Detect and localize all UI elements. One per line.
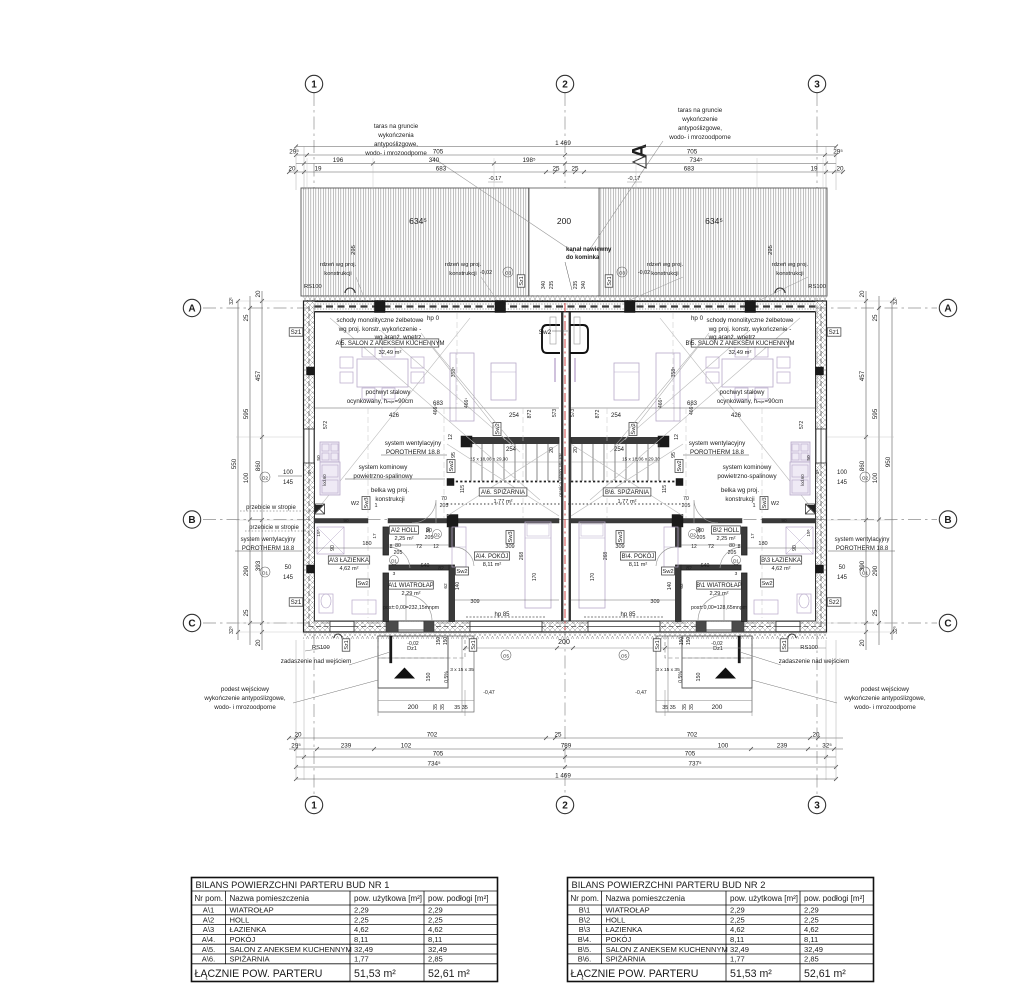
svg-text:2,29: 2,29 [354, 906, 369, 915]
svg-text:wg proj. konstr. wykończenie -: wg proj. konstr. wykończenie - [708, 326, 792, 333]
svg-text:Nazwa pomieszczenia: Nazwa pomieszczenia [230, 894, 310, 903]
axis marker 1 [305, 796, 322, 813]
svg-text:przebicie w stropie: przebicie w stropie [246, 505, 296, 511]
svg-text:268: 268 [519, 552, 525, 561]
svg-text:35: 35 [689, 704, 695, 710]
O1 window label right [860, 567, 870, 577]
axis marker A [183, 299, 200, 316]
svg-text:B\3: B\3 [579, 925, 590, 934]
svg-text:29⁵: 29⁵ [289, 148, 299, 155]
leader lines schody to stairs left [428, 341, 516, 447]
svg-text:235: 235 [549, 281, 555, 290]
svg-text:115: 115 [460, 485, 466, 493]
svg-text:100: 100 [837, 470, 848, 476]
svg-text:C: C [944, 619, 951, 630]
svg-text:1,77 m²: 1,77 m² [494, 499, 513, 505]
svg-text:860: 860 [859, 460, 866, 471]
svg-text:3: 3 [735, 571, 738, 577]
kitchen counter left [320, 442, 339, 462]
svg-text:B\4.: B\4. [578, 935, 592, 944]
svg-text:20: 20 [836, 165, 844, 172]
svg-text:SALON Z ANEKSEM KUCHENNYM: SALON Z ANEKSEM KUCHENNYM [230, 945, 352, 954]
svg-text:196: 196 [333, 157, 344, 164]
svg-text:0,5%: 0,5% [678, 671, 684, 683]
svg-text:20: 20 [255, 290, 262, 298]
svg-text:20: 20 [549, 447, 555, 453]
entrance porch right [682, 636, 752, 688]
svg-text:32⁵: 32⁵ [229, 626, 235, 634]
svg-text:A\6. SPIŻARNIA: A\6. SPIŻARNIA [481, 489, 525, 496]
svg-text:-0,02: -0,02 [711, 641, 723, 647]
svg-text:62: 62 [443, 583, 449, 589]
svg-text:SALON Z ANEKSEM KUCHENNYM: SALON Z ANEKSEM KUCHENNYM [606, 945, 728, 954]
svg-text:schody monolityczne żelbetowe: schody monolityczne żelbetowe [706, 317, 794, 324]
svg-text:295: 295 [768, 245, 774, 255]
entrance porch left [378, 636, 448, 688]
svg-text:SPIŻARNIA: SPIŻARNIA [606, 955, 647, 964]
svg-text:90: 90 [343, 518, 349, 524]
entrance arrow right [715, 668, 736, 679]
svg-text:150: 150 [696, 673, 702, 682]
room label A5 salon [335, 339, 444, 347]
svg-text:702: 702 [687, 731, 698, 738]
room label A1 wiatrolap [388, 581, 434, 589]
svg-text:A\1: A\1 [203, 906, 214, 915]
spizarnia dashed wall right [571, 481, 683, 483]
svg-text:8,11: 8,11 [730, 935, 744, 944]
side wall piers [307, 367, 315, 375]
svg-text:O3: O3 [505, 271, 512, 276]
svg-text:19: 19 [314, 165, 322, 172]
axis marker C [939, 614, 956, 631]
svg-text:2,25 m²: 2,25 m² [717, 536, 736, 542]
svg-text:pow. podłogi [m²]: pow. podłogi [m²] [428, 894, 488, 903]
svg-text:35: 35 [682, 704, 688, 710]
svg-text:hp 0: hp 0 [691, 315, 704, 322]
svg-text:1: 1 [311, 80, 317, 91]
svg-text:466¹: 466¹ [433, 405, 439, 415]
room label A3 lazienka [328, 556, 369, 564]
O2 window label left [260, 472, 270, 482]
svg-text:antypoślizgowe,: antypoślizgowe, [678, 125, 722, 132]
svg-text:290: 290 [872, 565, 879, 576]
svg-text:150: 150 [679, 637, 685, 646]
svg-text:254: 254 [509, 413, 520, 419]
svg-text:29⁵: 29⁵ [833, 148, 843, 155]
axis marker C [183, 614, 200, 631]
room label B2 holl [712, 526, 741, 534]
svg-text:8,11 m²: 8,11 m² [483, 562, 502, 568]
svg-text:do kominka: do kominka [566, 255, 600, 261]
svg-text:80: 80 [395, 543, 401, 549]
svg-text:340: 340 [581, 281, 587, 290]
outer wall outline [304, 301, 827, 632]
svg-text:390: 390 [859, 560, 866, 571]
dining table right unit [722, 359, 773, 387]
svg-text:Sz2: Sz2 [829, 599, 840, 606]
svg-text:457: 457 [255, 370, 262, 381]
svg-text:239: 239 [777, 742, 788, 749]
svg-text:B\2 HOLL: B\2 HOLL [713, 528, 740, 534]
svg-text:system wentylacyjny: system wentylacyjny [689, 440, 746, 447]
svg-text:52,61 m²: 52,61 m² [804, 968, 846, 980]
svg-text:1 469: 1 469 [555, 140, 571, 147]
svg-text:32⁵: 32⁵ [822, 742, 832, 749]
svg-text:50: 50 [316, 455, 322, 461]
svg-text:457: 457 [859, 370, 866, 381]
chimney bracket right [570, 325, 588, 353]
leader lines schody to stairs right [614, 341, 702, 447]
svg-text:19: 19 [810, 165, 818, 172]
svg-text:ocynkowany, hₘᵢₙ=90cm: ocynkowany, hₘᵢₙ=90cm [717, 398, 784, 405]
svg-text:3 x 15 x 35: 3 x 15 x 35 [656, 667, 680, 673]
svg-text:-0,47: -0,47 [635, 690, 647, 696]
svg-text:340: 340 [429, 157, 440, 164]
Sz1 boxed right top [827, 328, 841, 336]
insulation zigzag top [303, 295, 827, 301]
svg-text:309: 309 [615, 544, 624, 550]
svg-text:1 469: 1 469 [555, 772, 571, 779]
svg-text:wg proj. konstr. wykończenie -: wg proj. konstr. wykończenie - [338, 326, 422, 333]
svg-text:32,49 m²: 32,49 m² [729, 350, 752, 356]
svg-text:4,62 m²: 4,62 m² [772, 566, 791, 572]
svg-text:A\2 HOLL: A\2 HOLL [391, 528, 418, 534]
svg-text:antypoślizgowe,: antypoślizgowe, [374, 141, 418, 148]
svg-text:1⁵: 1⁵ [307, 470, 313, 475]
svg-text:640: 640 [421, 563, 430, 569]
svg-text:50: 50 [285, 565, 292, 571]
svg-text:4,62: 4,62 [354, 925, 369, 934]
svg-text:rdzeń wg proj.: rdzeń wg proj. [772, 262, 809, 268]
svg-text:A\4.: A\4. [202, 935, 216, 944]
svg-text:A: A [188, 304, 195, 315]
structural column mirrored [625, 301, 636, 313]
svg-text:170: 170 [532, 573, 538, 582]
svg-text:20: 20 [294, 731, 302, 738]
porch dims right [751, 690, 753, 716]
svg-text:3: 3 [393, 571, 396, 577]
svg-text:0,5%: 0,5% [444, 671, 450, 683]
svg-text:50: 50 [839, 565, 846, 571]
svg-text:705: 705 [687, 148, 698, 155]
svg-text:2,25: 2,25 [354, 915, 369, 924]
svg-text:B\1 WIATROŁAP: B\1 WIATROŁAP [696, 583, 742, 589]
svg-text:62: 62 [679, 583, 685, 589]
svg-text:WIATROŁAP: WIATROŁAP [230, 906, 274, 915]
svg-text:702: 702 [427, 731, 438, 738]
axis marker 2 [556, 796, 573, 813]
svg-text:35 35: 35 35 [662, 705, 676, 711]
svg-text:przebicie w stropie: przebicie w stropie [249, 525, 299, 531]
bottom outer wall hatched [304, 621, 827, 632]
svg-text:393: 393 [255, 560, 262, 571]
svg-text:25: 25 [872, 314, 879, 322]
svg-text:170: 170 [590, 573, 596, 582]
svg-text:Sz1: Sz1 [829, 329, 840, 336]
svg-text:4,62: 4,62 [428, 925, 443, 934]
svg-text:Sw2: Sw2 [662, 569, 673, 575]
svg-text:1: 1 [311, 801, 317, 812]
sofa left unit [450, 353, 474, 421]
Sz1 boxed left top [289, 328, 303, 336]
side window opening [304, 429, 315, 463]
dimension chain y=155 [289, 148, 843, 157]
svg-text:Sz1: Sz1 [291, 329, 302, 336]
svg-text:572: 572 [323, 421, 329, 430]
svg-text:205: 205 [728, 550, 737, 556]
svg-text:51,53 m²: 51,53 m² [354, 968, 396, 980]
svg-text:wg aranż. wnętrz: wg aranż. wnętrz [374, 334, 422, 341]
svg-text:A: A [629, 144, 651, 158]
svg-text:705: 705 [433, 148, 444, 155]
svg-text:90: 90 [781, 518, 787, 524]
svg-text:O1: O1 [262, 571, 269, 576]
svg-text:145: 145 [837, 480, 848, 486]
svg-text:2,29: 2,29 [804, 906, 819, 915]
svg-text:2: 2 [562, 801, 568, 812]
svg-text:-0,47: -0,47 [483, 690, 495, 696]
dashed sill lines pokoj windows [466, 616, 546, 618]
axis marker A [939, 299, 956, 316]
svg-text:737⁵: 737⁵ [688, 760, 702, 767]
wall on axis B [315, 519, 369, 524]
svg-text:Sw2: Sw2 [761, 581, 772, 587]
svg-text:2,85: 2,85 [428, 955, 443, 964]
svg-text:426: 426 [389, 413, 400, 419]
svg-text:254: 254 [614, 447, 625, 453]
svg-text:HOLL: HOLL [606, 915, 626, 924]
svg-text:zadaszenie nad wejściem: zadaszenie nad wejściem [281, 658, 352, 665]
svg-text:32,49: 32,49 [730, 945, 749, 954]
svg-text:Sz1: Sz1 [782, 640, 788, 649]
vertical extension lines inside plan [367, 408, 369, 518]
door swing arcs right unit [694, 500, 718, 523]
svg-text:wodo- i mrozoodporne: wodo- i mrozoodporne [853, 704, 916, 711]
svg-text:3: 3 [814, 80, 820, 91]
svg-text:705: 705 [685, 750, 696, 757]
svg-text:2,29 m²: 2,29 m² [402, 591, 421, 597]
chimney corner blocks at B wall [315, 504, 325, 514]
vertical dimension chain x=866 [859, 290, 868, 650]
svg-text:POKÓJ: POKÓJ [230, 935, 256, 944]
bathroom fixtures right [786, 527, 813, 554]
svg-text:B: B [188, 515, 195, 526]
svg-text:C: C [188, 619, 195, 630]
svg-text:system wentylacyjny: system wentylacyjny [385, 440, 442, 447]
svg-text:2,25: 2,25 [804, 915, 819, 924]
vertical dimension chain x=262 [255, 290, 264, 650]
svg-text:Sw2: Sw2 [539, 329, 552, 336]
svg-text:Sw3: Sw3 [618, 531, 624, 542]
grid axis line 1 [313, 93, 315, 796]
svg-text:-0,17: -0,17 [489, 176, 502, 182]
svg-text:B\1: B\1 [579, 906, 590, 915]
svg-text:573: 573 [570, 409, 576, 418]
svg-text:ŁAZIENKA: ŁAZIENKA [606, 925, 644, 934]
svg-text:205: 205 [394, 550, 403, 556]
side window opening [816, 429, 827, 463]
door swing arcs left unit [412, 500, 436, 523]
svg-text:hp 85: hp 85 [494, 612, 510, 618]
room label A6 spizarnia [479, 488, 527, 496]
svg-text:8,11 m²: 8,11 m² [629, 562, 648, 568]
canopy post right [738, 636, 741, 663]
svg-text:wykończenie: wykończenie [681, 116, 718, 123]
drain arc bottom left [334, 634, 342, 638]
svg-text:pos±:0,00=128,65mnpm: pos±:0,00=128,65mnpm [691, 605, 747, 611]
entrance door opening [398, 622, 424, 632]
svg-text:268: 268 [603, 552, 609, 561]
svg-text:O5: O5 [621, 654, 628, 659]
svg-text:102: 102 [401, 742, 412, 749]
room label B6 spizarnia [603, 488, 651, 496]
grid axis line A [203, 307, 937, 309]
axis marker 3 [808, 75, 825, 92]
svg-text:W2: W2 [771, 501, 779, 507]
svg-text:20: 20 [573, 447, 579, 453]
insulation zigzag bottom [303, 633, 827, 639]
svg-text:15 x 18,06 x 29,30: 15 x 18,06 x 29,30 [622, 457, 660, 462]
svg-text:wodo- i mrozoodporne: wodo- i mrozoodporne [213, 704, 276, 711]
svg-text:wykończenia: wykończenia [377, 132, 414, 139]
svg-text:100: 100 [283, 470, 294, 476]
svg-text:belka wg proj.: belka wg proj. [721, 487, 759, 494]
svg-text:D1: D1 [733, 559, 739, 564]
svg-text:-0,17: -0,17 [628, 176, 641, 182]
svg-text:25: 25 [243, 314, 250, 322]
grid axis line B [203, 519, 937, 521]
dotted przebicie line right [568, 503, 683, 505]
structural column [495, 301, 506, 313]
svg-text:B\6.: B\6. [578, 955, 592, 964]
room label B1 wiatrolap [696, 581, 742, 589]
svg-text:wykończenie antypoślizgowe,: wykończenie antypoślizgowe, [843, 695, 925, 702]
svg-text:145: 145 [283, 480, 294, 486]
svg-text:konstrukcji: konstrukcji [449, 271, 476, 277]
svg-text:150: 150 [443, 637, 449, 646]
axis marker B [183, 511, 200, 528]
svg-text:634⁵: 634⁵ [705, 216, 723, 226]
svg-text:25: 25 [872, 609, 879, 617]
Sz1 rotated labels top wall [517, 275, 525, 287]
sofa right unit [656, 353, 680, 421]
svg-text:3 x 15 x 35: 3 x 15 x 35 [450, 667, 474, 673]
svg-text:734⁵: 734⁵ [427, 760, 441, 767]
svg-text:lod.60: lod.60 [800, 474, 805, 486]
internal dimension line salon [315, 407, 559, 409]
svg-text:ŁAZIENKA: ŁAZIENKA [230, 925, 268, 934]
axis marker 2 [556, 75, 573, 92]
svg-text:A\3: A\3 [203, 925, 214, 934]
svg-text:belka wg proj.: belka wg proj. [371, 487, 409, 494]
svg-text:podest wejściowy: podest wejściowy [861, 686, 910, 693]
svg-text:3: 3 [814, 801, 820, 812]
svg-text:Nr pom.: Nr pom. [195, 894, 223, 903]
svg-text:100: 100 [718, 742, 729, 749]
axis marker B [939, 511, 956, 528]
kitchen counter right [791, 442, 810, 462]
svg-text:100: 100 [872, 472, 879, 483]
svg-text:20: 20 [812, 731, 820, 738]
svg-text:B\3 ŁAZIENKA: B\3 ŁAZIENKA [761, 558, 801, 564]
svg-text:system wentylacyjny: system wentylacyjny [241, 537, 296, 543]
svg-text:D1: D1 [391, 559, 397, 564]
lower partition walls right unit [742, 527, 748, 555]
svg-text:2,29: 2,29 [428, 906, 443, 915]
svg-text:35 35: 35 35 [454, 705, 468, 711]
svg-text:734⁵: 734⁵ [689, 157, 703, 164]
svg-text:25: 25 [571, 165, 579, 172]
svg-text:pow. użytkowa [m²]: pow. użytkowa [m²] [730, 894, 798, 903]
table BILANS POWIERZCHNI PARTERU BUD NR 2 [568, 878, 874, 982]
room label B3 lazienka [760, 556, 801, 564]
svg-text:B\6. SPIŻARNIA: B\6. SPIŻARNIA [605, 489, 649, 496]
svg-text:25: 25 [243, 609, 250, 617]
svg-text:235: 235 [573, 281, 579, 290]
svg-text:466¹: 466¹ [689, 405, 695, 415]
svg-text:Sz1: Sz1 [291, 599, 302, 606]
svg-text:180: 180 [758, 541, 767, 547]
window opening [776, 621, 800, 632]
window opening [588, 621, 660, 632]
svg-text:52,61 m²: 52,61 m² [428, 968, 470, 980]
dining table left unit [357, 359, 408, 387]
Sz1 boxed left bottom [289, 598, 303, 606]
svg-text:Nazwa pomieszczenia: Nazwa pomieszczenia [606, 894, 686, 903]
stair treads left [470, 444, 472, 482]
svg-text:A: A [944, 304, 951, 315]
svg-text:1: 1 [752, 503, 755, 509]
svg-text:254: 254 [611, 413, 622, 419]
O2 window label right [860, 472, 870, 482]
svg-text:A\1 WIATROŁAP: A\1 WIATROŁAP [388, 583, 434, 589]
svg-text:200: 200 [557, 216, 571, 226]
svg-text:zadaszenie nad wejściem: zadaszenie nad wejściem [779, 658, 850, 665]
svg-text:20: 20 [288, 165, 296, 172]
svg-text:95: 95 [671, 452, 677, 458]
svg-text:32,49: 32,49 [428, 945, 447, 954]
lower partition walls left unit [383, 527, 389, 555]
svg-text:Sw2: Sw2 [449, 460, 455, 471]
svg-text:system kominowy: system kominowy [723, 464, 773, 471]
svg-text:taras na gruncie: taras na gruncie [374, 123, 419, 130]
svg-text:198⁵: 198⁵ [522, 157, 536, 164]
svg-text:595: 595 [243, 408, 250, 419]
svg-text:taras na gruncie: taras na gruncie [678, 107, 723, 114]
svg-text:82: 82 [686, 566, 692, 572]
top wall glazing band [315, 301, 816, 312]
room label A4 pokoj [474, 552, 509, 560]
svg-text:426: 426 [731, 413, 742, 419]
svg-text:17: 17 [372, 533, 378, 539]
svg-text:rdzeń wg proj.: rdzeń wg proj. [647, 262, 684, 268]
svg-text:pos±:0,00=232,15mnpm: pos±:0,00=232,15mnpm [383, 605, 439, 611]
svg-text:25: 25 [554, 731, 562, 738]
svg-text:82: 82 [438, 566, 444, 572]
dimension chain y=757 [296, 750, 836, 759]
porch dims left [377, 690, 379, 716]
roof projection diagonals right unit [660, 318, 813, 510]
terrace middle strip [529, 188, 599, 296]
Sz2 boxed right bottom [827, 598, 841, 606]
svg-text:1,77: 1,77 [354, 955, 369, 964]
svg-text:32¹: 32¹ [229, 297, 235, 305]
svg-text:Sz1: Sz1 [607, 276, 613, 285]
svg-text:150: 150 [426, 673, 432, 682]
svg-text:8,11: 8,11 [428, 935, 442, 944]
svg-text:ocynkowany, hₘᵢₙ=90cm: ocynkowany, hₘᵢₙ=90cm [347, 398, 414, 405]
svg-text:2,25: 2,25 [730, 915, 745, 924]
